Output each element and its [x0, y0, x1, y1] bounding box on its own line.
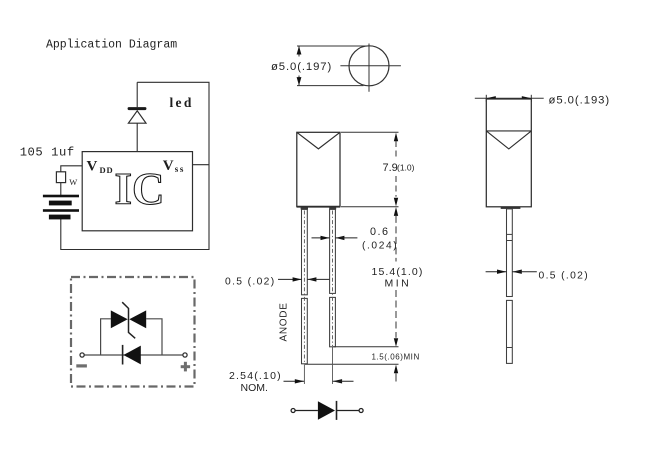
lead shoulder right	[329, 207, 336, 209]
svg-text:105 1uf: 105 1uf	[20, 146, 75, 160]
svg-text:W: W	[69, 177, 77, 187]
dimension 1.5 (.06) MIN	[372, 352, 420, 381]
svg-text:Application Diagram: Application Diagram	[46, 39, 177, 52]
lead flange side view	[501, 207, 521, 209]
polarity diode triangle	[318, 401, 335, 419]
svg-text:NOM.: NOM.	[241, 382, 268, 394]
dimension 0.5 front view	[278, 277, 329, 281]
polarity diode symbol terminal right	[359, 409, 363, 413]
svg-text:0.5 (.02): 0.5 (.02)	[539, 270, 590, 281]
dimension 0.5 side view	[486, 270, 537, 274]
extension line lead left center	[303, 364, 305, 384]
svg-text:15.4(1.0): 15.4(1.0)	[372, 266, 424, 278]
label dia 5.0 (.193)	[549, 95, 611, 107]
title Application Diagram	[46, 39, 177, 52]
svg-text:0.5 (.02): 0.5 (.02)	[225, 276, 276, 287]
wire capacitor to battery	[60, 183, 62, 195]
svg-text:0.6: 0.6	[370, 226, 390, 238]
wire bottom rail	[84, 354, 183, 356]
terminal circle minus	[80, 353, 84, 357]
wire upper branch left	[101, 319, 111, 355]
top view circle	[349, 46, 389, 86]
label 0.6 (.024)	[362, 226, 398, 251]
wire IC left pin to capacitor	[61, 166, 82, 172]
diode D2 triangle	[124, 346, 141, 365]
wire outer loop (battery- to IC right)	[61, 82, 209, 249]
svg-text:(.024): (.024)	[362, 240, 398, 251]
label 0.5 (.02) side view	[539, 270, 590, 281]
op-amp U1 IC box	[82, 152, 192, 231]
label ANODE	[279, 302, 290, 341]
label 0.5 (.02) front view	[225, 276, 276, 287]
wire line lead left bottom	[305, 363, 399, 365]
svg-text:V: V	[87, 159, 98, 175]
wire line lead right bottom	[333, 346, 398, 348]
pin label VDD	[87, 159, 114, 175]
label dia 5.0 (.197)	[271, 61, 332, 73]
wire	[337, 410, 360, 412]
svg-text:DD: DD	[100, 165, 114, 175]
diode D1 led triangle	[128, 111, 146, 123]
capacitor C1 105 1uf	[56, 172, 65, 183]
lead right (cathode)	[330, 209, 336, 346]
svg-text:(1.0): (1.0)	[397, 163, 415, 173]
svg-text:IC: IC	[114, 164, 164, 214]
svg-text:1.5(.06)MIN: 1.5(.06)MIN	[372, 352, 420, 361]
centerline crosshair	[340, 44, 401, 92]
terminal circle plus	[183, 353, 187, 357]
TVS diode D3 left triangle	[111, 310, 128, 328]
wire led branch top	[136, 82, 138, 107]
label W	[69, 177, 77, 187]
svg-text:ss: ss	[175, 164, 185, 174]
lead side view	[507, 209, 513, 364]
label led	[170, 95, 194, 110]
extension line lead right center	[332, 347, 334, 384]
diode D1 led cathode bar	[128, 107, 147, 110]
svg-text:MIN: MIN	[385, 278, 412, 290]
label 7.9 (1.0)	[383, 162, 415, 174]
dimension 15.4 MIN	[394, 207, 398, 347]
lead shoulder left	[301, 207, 308, 209]
label 15.4 (1.0) MIN	[372, 266, 424, 290]
label IC	[114, 164, 164, 214]
LED body front view	[297, 132, 340, 206]
LED body side view	[486, 99, 531, 207]
dimension dia 5.0 (.197) lines	[297, 46, 366, 86]
svg-text:2.54(.10): 2.54(.10)	[229, 370, 282, 382]
svg-text:led: led	[170, 95, 194, 110]
label 105 1uf	[20, 146, 75, 160]
label minus	[76, 364, 87, 367]
battery BT1	[43, 195, 79, 220]
svg-text:ø5.0(.197): ø5.0(.197)	[271, 61, 332, 73]
enclosure dash-dot box	[71, 277, 195, 387]
dimension 7.9	[394, 133, 398, 207]
polarity diode symbol terminal left	[291, 409, 295, 413]
dimension 2.54 NOM	[284, 379, 354, 383]
pin label Vss	[163, 158, 185, 174]
extension lines body right	[341, 132, 399, 206]
svg-text:7.9: 7.9	[383, 162, 398, 174]
wire led branch bottom	[136, 123, 138, 151]
svg-text:ANODE: ANODE	[279, 302, 290, 341]
TVS diode D3 bar	[122, 302, 135, 338]
dimension 0.6	[312, 236, 358, 240]
svg-text:ø5.0(.193): ø5.0(.193)	[549, 95, 611, 107]
diode D2 bar	[122, 345, 124, 365]
label 2.54 (.10) NOM.	[229, 370, 282, 394]
wire upper branch right	[146, 319, 162, 355]
label plus	[181, 362, 190, 372]
wire IC right pin to loop	[193, 164, 210, 166]
wire	[295, 410, 318, 412]
polarity diode bar	[336, 401, 338, 420]
lead left (anode)	[302, 209, 308, 363]
TVS diode D3 right triangle	[129, 310, 146, 328]
dimension dia 5.0 (.193)	[475, 95, 544, 102]
